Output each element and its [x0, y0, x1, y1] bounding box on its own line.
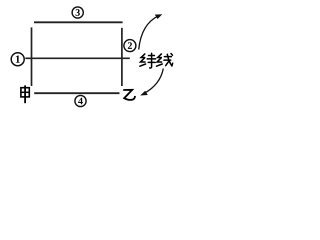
- label weixian char2: xian right part: [164, 54, 173, 66]
- circled 1 (point on latitude line, left): [11, 53, 24, 66]
- middle latitude line: [25, 57, 130, 59]
- right vertical line: [121, 28, 123, 86]
- circled 4 (bottom edge): [75, 95, 86, 106]
- circled 2 (point, right): [124, 40, 136, 52]
- circled 3 (top edge): [72, 7, 83, 18]
- top curved arrow (points up-right): [139, 14, 163, 49]
- label Jia (CJK, bottom-left corner): [21, 86, 29, 102]
- bottom curved arrow (points down-left at Yi): [140, 69, 163, 96]
- top line (edge labelled 3): [34, 21, 123, 23]
- left vertical line: [31, 27, 33, 86]
- label weixian char1: silk radical: [140, 54, 146, 66]
- label weixian char2: silk radical: [157, 54, 163, 66]
- label weixian char1: wei right part: [147, 53, 155, 68]
- label Yi (CJK, bottom-right corner): [123, 90, 135, 100]
- bottom line (edge labelled 4): [34, 92, 119, 94]
